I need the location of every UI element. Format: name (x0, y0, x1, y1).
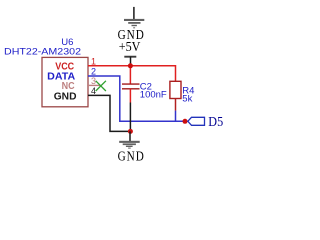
svg-text:4: 4 (91, 86, 96, 96)
component U6 body (42, 57, 88, 106)
svg-text:1: 1 (91, 56, 96, 66)
svg-text:100nF: 100nF (140, 90, 167, 101)
svg-text:5k: 5k (182, 94, 192, 105)
wire VCC net (pin1 to R4 top, red) (88, 66, 176, 82)
wire +5V to C2 top (red) (129, 66, 131, 84)
pin 3 stub (NC) (88, 84, 101, 86)
junction D5 node (183, 119, 188, 124)
junction GND node (128, 129, 133, 134)
svg-text:GND: GND (118, 148, 145, 163)
svg-text:2: 2 (91, 67, 96, 77)
power symbol +5V bar (124, 57, 136, 66)
capacitor C2 (122, 84, 140, 102)
svg-text:DHT22-AM2302: DHT22-AM2302 (4, 46, 81, 57)
no-connect X (96, 81, 106, 91)
wire GND pin4 (black) (88, 95, 130, 131)
resistor R4 (170, 81, 181, 121)
svg-text:+5V: +5V (119, 39, 141, 54)
net flag D5 (188, 117, 205, 125)
svg-text:3: 3 (91, 76, 96, 86)
svg-text:GND: GND (54, 91, 77, 102)
ground symbol GND (bottom) (119, 131, 140, 148)
svg-text:D5: D5 (208, 115, 223, 130)
ground symbol GND (top) (124, 7, 144, 28)
wire C2 bottom to GND (black) (129, 103, 131, 132)
wire DATA net (pin2 down and right, blue) (88, 76, 188, 121)
junction +5V node (128, 63, 133, 68)
